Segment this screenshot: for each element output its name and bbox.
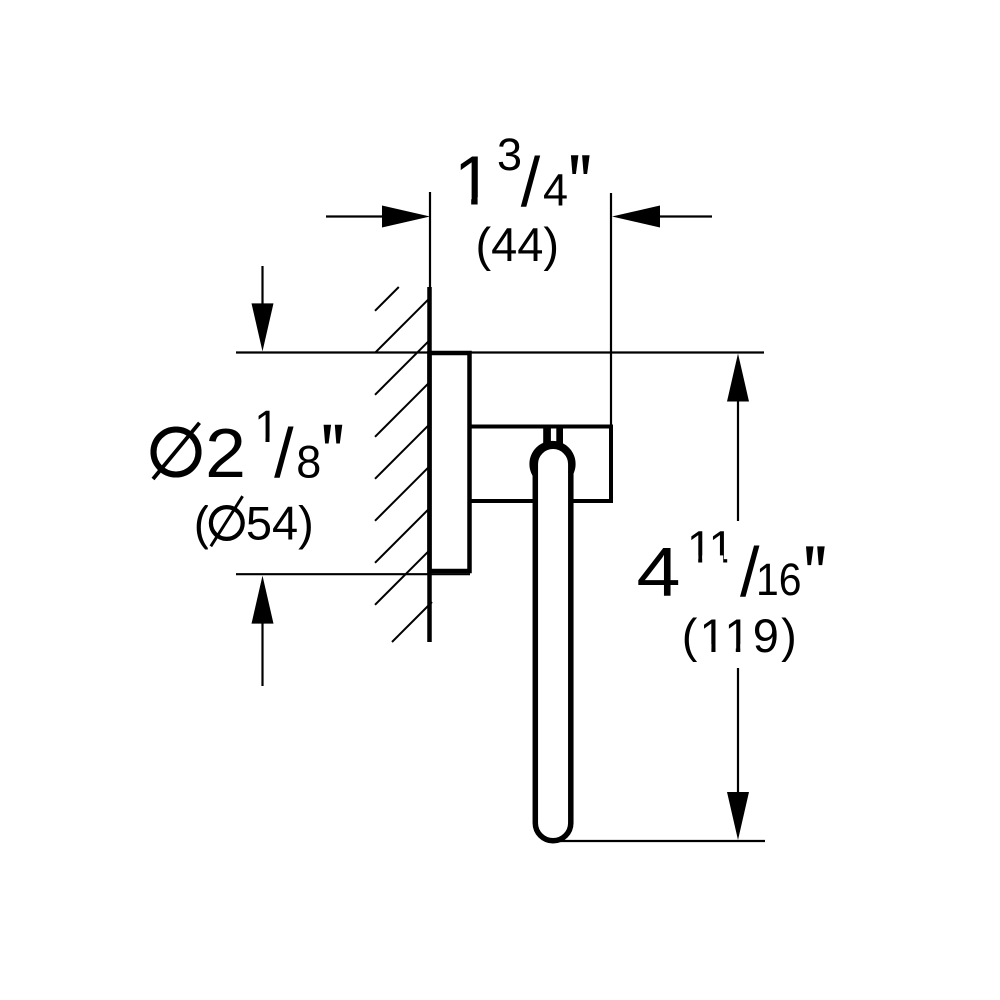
- holder arm: [470, 427, 612, 502]
- svg-text:4: 4: [637, 533, 681, 611]
- extension line bottom of height dim (ring bottom): [553, 840, 765, 842]
- diameter dim arrowhead lower (points up): [252, 576, 274, 624]
- diameter dim upper arrow shaft: [261, 266, 263, 307]
- paper holder ring (side view): [535, 446, 571, 841]
- svg-text:8: 8: [296, 437, 321, 488]
- extension line bottom of diameter dim (rosette bottom): [236, 573, 470, 575]
- svg-text:(44): (44): [476, 218, 560, 271]
- wall plate (rosette): [430, 353, 470, 571]
- height dim line upper segment: [737, 400, 739, 521]
- extension line left of width dim (wall face): [429, 192, 431, 288]
- svg-text:3: 3: [497, 129, 522, 180]
- pivot stem: [543, 427, 563, 446]
- svg-text:4: 4: [543, 165, 568, 216]
- svg-text:16: 16: [756, 554, 802, 605]
- serif-foot patches for numerator 11: [688, 555, 737, 565]
- diameter dim arrowhead upper (points down): [252, 303, 274, 351]
- wall line: [427, 287, 432, 642]
- extension line right of width dim (arm face): [610, 193, 612, 426]
- serif-foot patches for (119) ones: [701, 644, 750, 654]
- wall hatching: [375, 287, 432, 642]
- inch mark (diameter dim): [324, 425, 343, 444]
- width dim leader left shaft: [326, 215, 386, 217]
- pivot stem slot: [551, 429, 556, 442]
- height dim arrowhead top (points up): [727, 354, 749, 402]
- custom Helvetica-style diameter symbol (big): [148, 421, 204, 482]
- svg-text:/: /: [274, 414, 294, 492]
- width dim arrowhead right: [612, 206, 660, 228]
- inch mark (height dim): [806, 546, 825, 565]
- width dim leader right shaft: [656, 215, 712, 217]
- serif-foot patches for numerator 1: [255, 437, 278, 445]
- inch mark: [571, 155, 590, 174]
- serif-foot patches for "1": [459, 197, 491, 207]
- extension line top (rosette top / height datum): [236, 351, 764, 353]
- svg-text:/: /: [521, 143, 541, 221]
- height dim arrowhead bottom (points down): [727, 792, 749, 840]
- width dim arrowhead left: [382, 206, 430, 228]
- pivot ball: [529, 441, 575, 487]
- diameter dim lower arrow shaft: [261, 620, 263, 686]
- svg-text:1: 1: [454, 142, 493, 220]
- custom Helvetica-style diameter symbol (small): [208, 495, 246, 552]
- height dim line lower segment: [737, 668, 739, 794]
